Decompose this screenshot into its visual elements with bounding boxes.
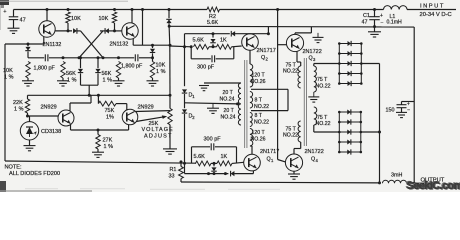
wire box2 bottom right: [234, 173, 253, 175]
node C1-groundbus: [373, 25, 376, 28]
resistor 22K 1%: [25, 99, 29, 113]
svg-text:47: 47: [362, 19, 368, 25]
wire bank lower out: [361, 131, 380, 133]
inductor 3mH choke: [383, 180, 407, 183]
svg-text:8 T: 8 T: [255, 113, 263, 119]
svg-text:2N1717: 2N1717: [260, 149, 279, 155]
transistor Q4 2N1722: [285, 154, 302, 171]
resistor 10K 1% right: [150, 62, 154, 79]
svg-text:NO.24: NO.24: [220, 97, 235, 103]
ground T2 mid: [313, 92, 315, 97]
svg-text:33: 33: [169, 174, 175, 180]
svg-text:20-34 V D-C: 20-34 V D-C: [420, 12, 452, 18]
node 56K2 top: [117, 56, 120, 59]
wire Q3a emitter: [70, 124, 72, 130]
wire bias line seg3: [139, 57, 153, 59]
svg-text:2N1132: 2N1132: [110, 42, 129, 48]
node right diode col: [151, 44, 154, 47]
node T1 left junction: [236, 102, 239, 105]
node y95-75K: [97, 94, 100, 97]
node bus-groundline: [168, 25, 171, 28]
winding T1 120T lower: [250, 129, 253, 147]
svg-text:NO.22: NO.22: [316, 121, 331, 127]
svg-text:INPUT: INPUT: [420, 4, 445, 10]
svg-text:NO.22: NO.22: [283, 69, 298, 75]
node rail-Q1e: [46, 8, 49, 11]
scan artifact caption dots: [25, 188, 58, 190]
wire bus lower: [169, 125, 171, 149]
wire cap47 gnd stem: [13, 20, 15, 29]
T1 core: [244, 60, 246, 148]
wire x142 drop: [142, 10, 144, 46]
svg-text:5.6K: 5.6K: [194, 154, 206, 160]
ground Q4: [288, 173, 300, 175]
svg-text:56K: 56K: [66, 71, 76, 77]
svg-text:10K: 10K: [3, 68, 13, 74]
svg-text:300 pF: 300 pF: [197, 65, 215, 71]
wire dc bus vertical: [379, 64, 381, 183]
wire Q4 collector: [293, 149, 295, 155]
diode box1 topwire: [231, 31, 235, 36]
T2 core: [303, 58, 305, 146]
wire diode col D: [152, 45, 154, 48]
svg-text:C1: C1: [363, 13, 370, 19]
wire box1 res right: [209, 46, 217, 48]
resistor 10K right: [112, 12, 116, 23]
svg-text:0.1mH: 0.1mH: [387, 20, 403, 26]
svg-text:NO.22: NO.22: [283, 133, 298, 139]
wire output lead: [414, 182, 438, 184]
wire bias line seg2: [49, 57, 134, 59]
wire D mid tap: [185, 103, 238, 104]
svg-text:+: +: [407, 101, 410, 107]
wire y95 line: [28, 94, 171, 96]
winding T1 120T upper: [250, 64, 253, 87]
node box2 mid: [213, 162, 216, 165]
wire Q1 emitter: [46, 10, 48, 22]
ground bus pot: [163, 148, 177, 150]
wire T1 8T U-bottom: [251, 110, 288, 112]
wire input lead: [407, 9, 456, 11]
capacitor 300pF upper: [211, 55, 213, 62]
node R1 tap: [180, 160, 183, 163]
svg-text:10K: 10K: [71, 16, 81, 22]
node rail-R10K2: [113, 8, 116, 11]
diode col left: [25, 47, 30, 51]
winding T1 20T lower: [238, 104, 241, 125]
svg-text:1%: 1%: [106, 114, 114, 120]
node diag B land: [78, 56, 81, 59]
wire box1 top: [185, 33, 230, 35]
pot wiper arrow: [162, 115, 167, 119]
winding T2 left lower: [298, 121, 301, 142]
wire 56K2 gnd stem: [118, 78, 120, 81]
wire Q2 emitter: [131, 10, 133, 24]
svg-text:56K: 56K: [102, 71, 112, 77]
capacitor C1: [369, 16, 380, 18]
resistor 5.6K upper: [194, 44, 210, 49]
ground Q3: [317, 33, 319, 38]
resistor 10K 1% far-left: [26, 62, 30, 79]
wire T2 bottom feed: [313, 125, 315, 132]
svg-text:1,800 pF: 1,800 pF: [121, 64, 143, 70]
svg-text:ADJUST: ADJUST: [144, 134, 173, 140]
wire 10K2 gnd stem: [152, 78, 154, 81]
wire 10K1 gnd stem: [27, 78, 29, 81]
wire diagonal A: [81, 31, 104, 58]
capacitor 1800pF left: [44, 54, 46, 61]
wire base line left: [5, 43, 44, 45]
svg-text:NO.24: NO.24: [221, 115, 236, 121]
wire D column lower: [184, 114, 186, 163]
inductor L1: [383, 6, 407, 10]
node 10K2-base: [113, 29, 116, 32]
node diodeB top: [79, 56, 82, 59]
wire D column upper: [184, 47, 186, 86]
ground 56K right: [113, 80, 125, 82]
wire Q2d emitter: [249, 50, 251, 64]
wire 56K1 gnd stem: [62, 78, 64, 81]
diode col C: [97, 58, 99, 68]
wire Q3 base: [278, 44, 287, 46]
node rail-bus: [168, 8, 171, 11]
wire D column mid: [184, 94, 186, 108]
node box1 mid: [212, 45, 215, 48]
wire box1 top right: [235, 33, 268, 35]
winding T2 right lower: [314, 107, 317, 125]
wire C1 stem bottom: [374, 20, 376, 32]
wire Q3 emitter: [296, 51, 298, 62]
resistor 27K 1%: [96, 135, 100, 150]
wire top rail right: [220, 9, 384, 11]
svg-text:20 T: 20 T: [224, 108, 235, 114]
ground 10K 1%: [22, 80, 34, 82]
resistor 5.6K lower: [196, 161, 212, 166]
svg-text:NO.22: NO.22: [254, 104, 269, 110]
svg-text:NOTE:: NOTE:: [5, 164, 23, 170]
svg-text:47: 47: [20, 17, 26, 23]
node choke in: [378, 181, 381, 184]
resistor R2: [207, 7, 220, 12]
svg-text:−: −: [407, 108, 410, 114]
wire Q4 emitter: [293, 171, 295, 174]
svg-text:10K: 10K: [156, 63, 166, 69]
ground cap47: [8, 27, 20, 29]
zener CD3138: [20, 122, 38, 140]
winding T1 8T upper: [250, 92, 253, 109]
wire box1 loop: [190, 47, 192, 59]
node box1 loop left: [190, 45, 193, 48]
node rail-Q3bus: [276, 8, 279, 11]
winding T2 right upper: [314, 66, 317, 92]
node box1 left: [183, 45, 186, 48]
diode bus up: [166, 19, 171, 23]
svg-text:2N1132: 2N1132: [43, 42, 62, 48]
svg-text:300 pF: 300 pF: [204, 137, 222, 143]
wire box2 loop: [191, 147, 193, 164]
svg-text:75 T: 75 T: [286, 126, 297, 132]
diode box2 bottomwire: [231, 171, 235, 176]
wire Q3a collector: [69, 103, 71, 111]
node busx170-45: [169, 44, 172, 47]
wire ground bus corner: [413, 27, 415, 183]
wire base line right: [133, 44, 170, 46]
wire 22K top: [27, 95, 29, 99]
wire R1 bottom: [180, 179, 182, 182]
wire cap47 stem: [13, 10, 15, 17]
wire diodeA bottom: [27, 52, 29, 58]
wire diode colD mid: [152, 53, 154, 61]
diode D2: [182, 109, 187, 113]
wire 22K bottom: [27, 113, 29, 116]
wire choke to node: [407, 182, 415, 184]
resistor 56K 1% left: [61, 62, 65, 79]
node q2 collector elbow: [267, 32, 270, 35]
wire Q1 collector right: [55, 30, 73, 32]
svg-text:+: +: [3, 9, 6, 15]
node diodeC top: [97, 56, 100, 59]
capacitor 300pF lower: [210, 143, 212, 150]
wire bus top stub: [168, 10, 170, 19]
wire C1 stem top: [374, 10, 376, 17]
wire box2 bottom: [185, 173, 229, 175]
node 10K-collector: [67, 29, 70, 32]
wire Q4a emitter stub: [128, 125, 130, 130]
wire 75K to base: [116, 103, 127, 105]
capacitor 1800pF right: [134, 54, 136, 61]
svg-text:5.6K: 5.6K: [207, 20, 218, 26]
wire box1 res line lead: [170, 45, 191, 48]
node 56K1 top: [62, 56, 65, 59]
wire R1 top: [180, 162, 182, 167]
svg-text:20 T: 20 T: [223, 90, 234, 96]
svg-text:1,800 pF: 1,800 pF: [34, 65, 56, 71]
winding T1 20T upper: [238, 83, 241, 104]
diode D1: [182, 89, 187, 93]
svg-text:NO.22: NO.22: [254, 119, 269, 125]
wire bias line seg1: [28, 57, 44, 59]
svg-text:1 %: 1 %: [103, 78, 113, 84]
wire output bottom: [181, 181, 380, 184]
winding T2 left upper: [298, 66, 301, 88]
transistor Q2 2N1132: [122, 23, 138, 39]
svg-text:1 %: 1 %: [104, 144, 114, 150]
resistor 10K left: [66, 12, 70, 23]
wire diode pair join: [81, 84, 99, 86]
wire 27K gnd stem: [97, 149, 99, 152]
wire gnd riser: [267, 26, 269, 33]
scan artifact bottom-left corner: [0, 181, 6, 192]
wire 27K top stem: [97, 130, 99, 135]
diode col D: [150, 49, 155, 53]
svg-text:2N929: 2N929: [41, 104, 57, 110]
wire T1 8T U-top: [251, 88, 288, 90]
capacitor 150uF: [397, 104, 407, 106]
svg-text:120 T: 120 T: [252, 130, 266, 136]
wire Q2 collector down: [132, 39, 134, 46]
wire 150uF gnd stem: [401, 108, 403, 113]
svg-text:75K: 75K: [105, 108, 115, 114]
wire diode pair stub: [88, 85, 90, 95]
node box1 topdiode: [212, 32, 215, 35]
svg-text:75 T: 75 T: [317, 115, 328, 121]
svg-text:27K: 27K: [103, 138, 113, 144]
node output join: [413, 182, 416, 185]
wire Q1d collector: [251, 146, 253, 154]
diode cross left: [73, 28, 77, 33]
wire 75K drop: [97, 95, 99, 103]
wire zener gnd stem: [29, 140, 31, 146]
resistor 1K upper: [217, 44, 232, 49]
node box2 bottom a: [207, 172, 210, 175]
node rail-R10K1: [67, 8, 70, 11]
ground 27K: [92, 151, 104, 153]
svg-text:150: 150: [386, 107, 395, 113]
node box2 bottom b: [224, 172, 227, 175]
svg-text:75 T: 75 T: [317, 77, 328, 83]
ground T1 left mid: [212, 104, 214, 108]
ground 150uF: [396, 111, 407, 113]
node y95-bus: [169, 94, 172, 97]
wire bottom rail left: [5, 161, 196, 163]
svg-text:R1: R1: [170, 167, 177, 173]
node left diode col: [27, 43, 30, 46]
svg-text:2N1722: 2N1722: [303, 49, 322, 55]
node diag A land: [102, 56, 105, 59]
node box2 diode bottom: [213, 172, 216, 175]
wire diagonal B: [79, 31, 103, 58]
transistor Q2 2N1717: [242, 34, 259, 51]
node dc bus join: [378, 131, 381, 134]
svg-text:3mH: 3mH: [391, 173, 402, 179]
svg-text:75 T: 75 T: [286, 62, 297, 68]
wire diodeA stem: [27, 44, 29, 46]
node rail-C1: [373, 8, 376, 11]
ground 10K right: [147, 80, 159, 82]
wire Q3 collector: [294, 33, 296, 35]
transistor Q1 2N1717: [244, 154, 261, 171]
diode col B: [80, 58, 82, 68]
transistor Q4a 2N929: [122, 109, 138, 125]
svg-text:22K: 22K: [13, 100, 23, 106]
scan artifact bottom edge line: [0, 190, 92, 192]
svg-text:NO.26: NO.26: [251, 79, 266, 85]
node diodeD-cap: [151, 56, 154, 59]
svg-text:1 %: 1 %: [4, 75, 14, 81]
node y95-diodepair: [88, 94, 91, 97]
resistor R1 33: [179, 167, 184, 179]
wire T1 8T U-vert: [287, 89, 289, 110]
scan artifact top edge line: [0, 0, 128, 2]
wire 10K left bottom: [67, 23, 69, 31]
transistor Q3a 2N929: [58, 110, 74, 126]
wire zener stub: [29, 116, 31, 122]
svg-text:2N929: 2N929: [138, 105, 154, 111]
wire left edge vertical: [4, 44, 6, 161]
svg-text:NO.22: NO.22: [316, 83, 331, 89]
resistor 75K 1%: [98, 101, 116, 106]
resistor 56K 1% right: [116, 62, 120, 79]
wire Q4a collector: [136, 110, 171, 113]
wire ground bus: [169, 25, 414, 28]
node D col bottom: [183, 162, 186, 165]
node 27K top: [97, 129, 100, 132]
wire box2 res line: [195, 162, 198, 164]
node rail-x142: [141, 8, 144, 11]
wire after diode right: [109, 30, 115, 32]
resistor 25K pot: [168, 108, 172, 124]
svg-text:CD3138: CD3138: [41, 129, 61, 135]
svg-text:1K: 1K: [221, 154, 228, 160]
wire T1 left top lead: [204, 82, 241, 84]
diode box2 vertical: [213, 163, 215, 166]
wire box1 left edge: [184, 34, 186, 47]
wire Q1d emitter riser: [252, 171, 254, 174]
ground 56K left: [57, 80, 69, 82]
wire T2 top feed: [313, 64, 315, 67]
svg-text:NO.26: NO.26: [251, 137, 266, 143]
svg-text:2N1717: 2N1717: [257, 48, 276, 54]
svg-text:−: −: [380, 20, 383, 26]
wire 150uF hook: [401, 102, 403, 105]
wire after diode left: [77, 30, 81, 32]
wire Q1 base down: [43, 37, 45, 45]
scan artifact top-left corner: [0, 0, 9, 5]
wire D col to box2: [184, 163, 186, 173]
ground CD3138: [24, 145, 36, 147]
svg-text:ALL DIODES FD200: ALL DIODES FD200: [9, 171, 60, 177]
svg-text:1 %: 1 %: [14, 107, 24, 113]
ground T1 left top: [199, 85, 209, 87]
capacitor 47: [9, 16, 19, 18]
wire base bus: [277, 10, 279, 160]
transistor Q1 2N1132: [39, 21, 55, 37]
svg-text:+: +: [380, 13, 383, 19]
svg-text:VOLTAGE: VOLTAGE: [142, 127, 174, 133]
diode bank lower (5x FD200): [338, 112, 340, 152]
diode bank upper (5x FD200): [338, 44, 340, 84]
svg-text:1 %: 1 %: [156, 69, 166, 75]
svg-text:1K: 1K: [220, 37, 227, 43]
diode box1 vertical: [212, 34, 214, 38]
svg-text:8 T: 8 T: [255, 98, 263, 104]
svg-text:10K: 10K: [99, 16, 109, 22]
transistor Q3 2N1722: [286, 34, 303, 51]
wire base wire Q3a: [28, 115, 59, 117]
node rail-Q2e: [131, 8, 134, 11]
wire bus mid: [169, 95, 171, 108]
wire bank upper out: [361, 63, 379, 65]
wire box2 res right: [211, 162, 217, 164]
wire top rail left: [14, 9, 208, 11]
resistor 1K lower: [217, 161, 232, 166]
wire diode right to diag: [100, 30, 105, 32]
wire emitter common: [71, 129, 129, 131]
node 22K-base: [26, 115, 29, 118]
svg-text:2N1722: 2N1722: [305, 149, 324, 155]
wire 10K right bottom: [114, 23, 116, 31]
svg-text:120 T: 120 T: [252, 73, 266, 79]
wire wiper lead: [136, 117, 164, 122]
ground C1: [368, 31, 381, 33]
svg-text:5.6K: 5.6K: [193, 37, 205, 43]
winding T1 8T lower: [250, 113, 252, 127]
diode cross right: [105, 28, 109, 33]
svg-text:SeekIC.com: SeekIC.com: [407, 180, 460, 192]
wire bus upper: [168, 23, 171, 45]
